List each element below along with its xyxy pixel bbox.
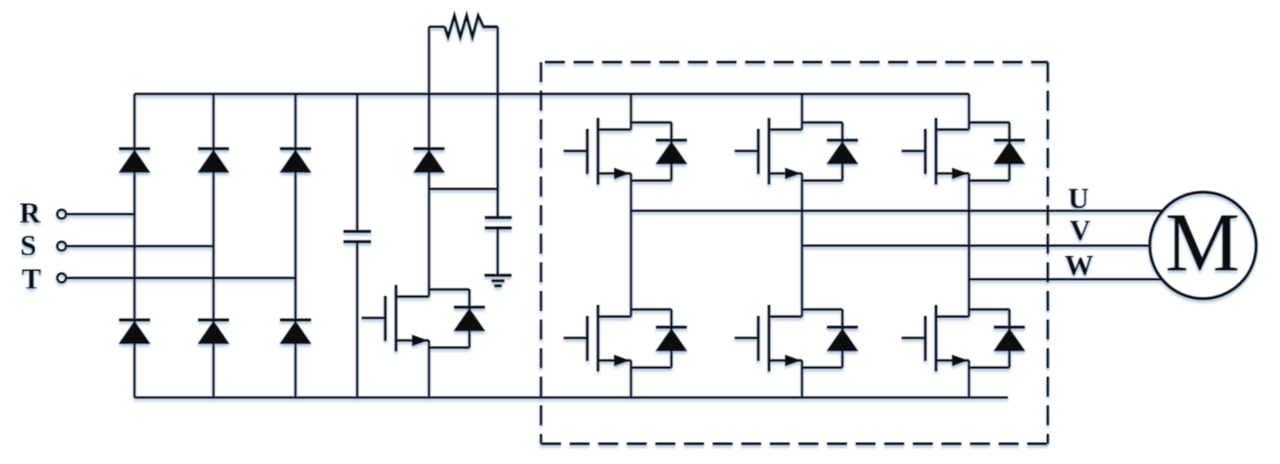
svg-text:V: V bbox=[1070, 215, 1091, 247]
svg-text:M: M bbox=[1165, 197, 1240, 290]
svg-text:T: T bbox=[22, 263, 41, 295]
svg-text:W: W bbox=[1065, 250, 1094, 282]
svg-text:S: S bbox=[20, 230, 36, 262]
svg-text:U: U bbox=[1068, 183, 1089, 215]
svg-text:R: R bbox=[20, 198, 42, 230]
